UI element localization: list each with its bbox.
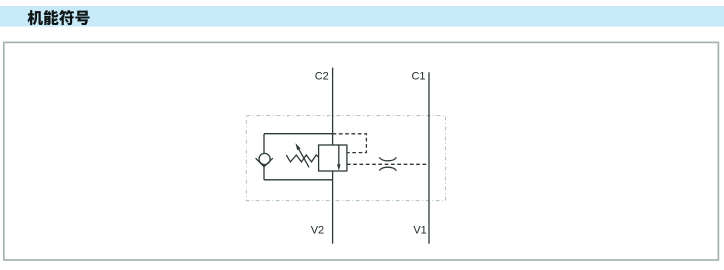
wire: check-valve branch left vertical	[263, 134, 265, 180]
wire: check-valve branch top	[264, 133, 333, 135]
valve flow arrow shaft	[338, 145, 340, 165]
wire: C1/V1 vertical line	[428, 72, 430, 244]
wire: C2 upper vertical line	[332, 68, 334, 145]
svg-text:V1: V1	[413, 225, 426, 237]
wire: V2 lower vertical line	[332, 171, 334, 244]
valve flow arrow head	[337, 164, 341, 170]
svg-text:C1: C1	[411, 71, 425, 83]
svg-text:C2: C2	[315, 71, 329, 83]
adjustment arrow shaft	[299, 149, 309, 167]
pilot dashed loop from C2 to valve right port	[333, 134, 367, 153]
header title glyphs 机能符号	[28, 10, 90, 25]
header bar 机能符号	[0, 6, 724, 27]
adjustment arrow head	[296, 143, 301, 150]
dashed enclosure boundary	[246, 116, 445, 201]
spring (adjustable) zigzag	[286, 155, 318, 162]
wire: check-valve branch bottom	[264, 179, 333, 181]
valve body box	[319, 145, 347, 171]
pilot dashed line valve to C1	[347, 163, 429, 165]
throttle orifice upper arc	[379, 157, 396, 161]
svg-text:V2: V2	[311, 225, 324, 237]
check valve ball	[259, 153, 270, 164]
check valve seat	[256, 158, 273, 167]
throttle orifice lower arc	[379, 167, 396, 171]
outer panel border	[4, 42, 719, 260]
